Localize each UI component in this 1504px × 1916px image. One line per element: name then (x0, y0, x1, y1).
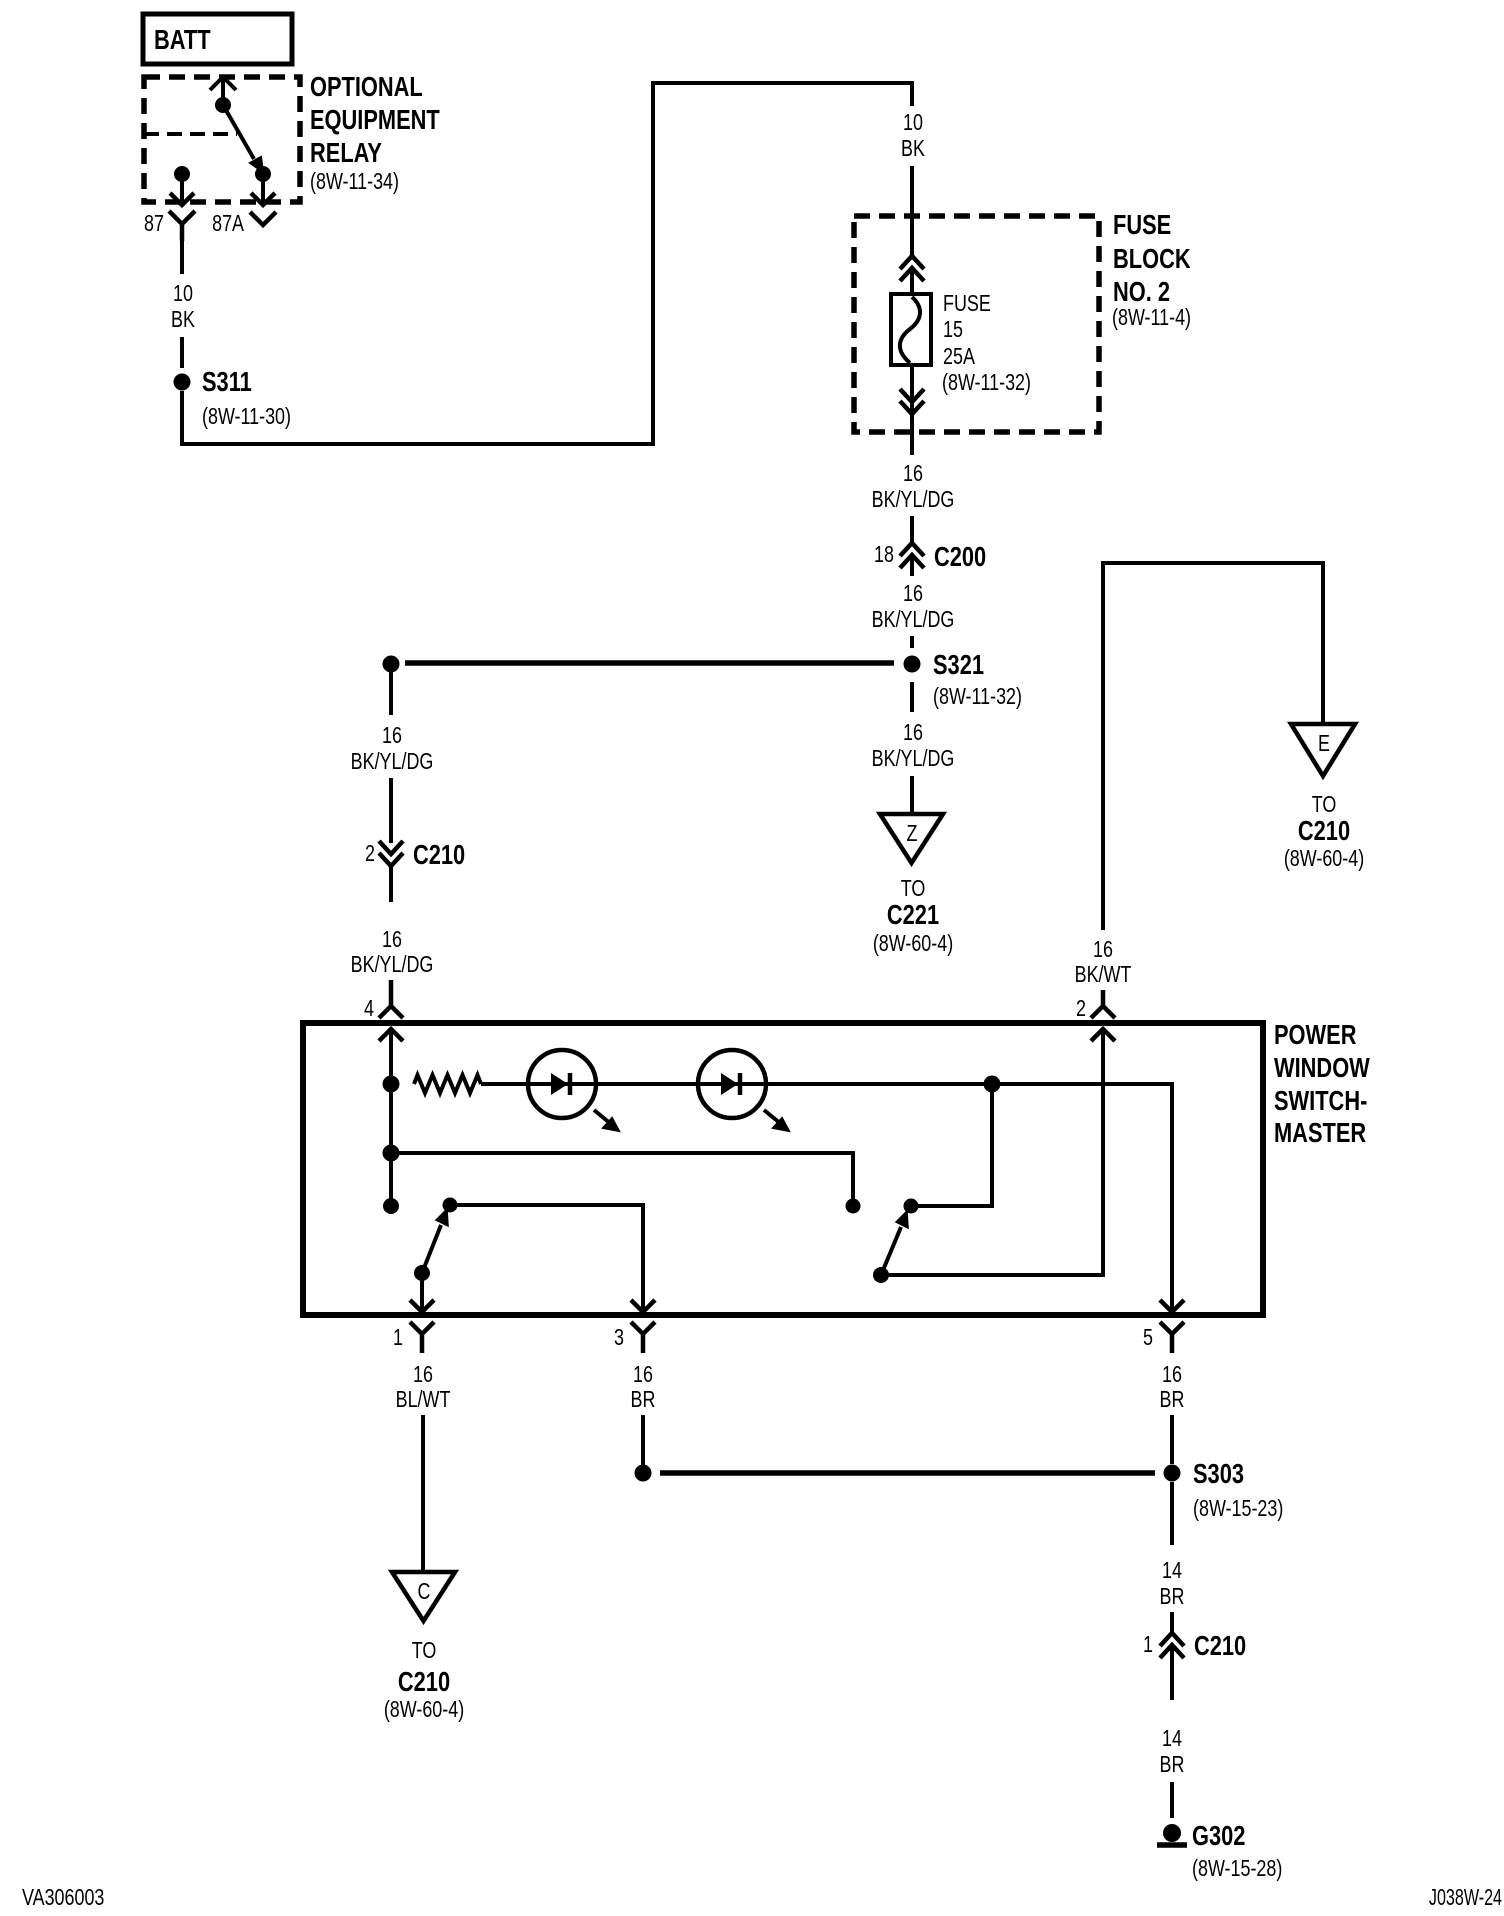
svg-text:S303: S303 (1193, 1458, 1244, 1489)
pin 87 connector Y (169, 211, 195, 241)
svg-text:C200: C200 (934, 541, 986, 572)
wire ground branch (660, 1470, 1155, 1476)
svg-text:(8W-11-30): (8W-11-30) (202, 404, 291, 430)
relay label (310, 71, 440, 194)
wire label 16 BK/YL/DG (351, 723, 434, 775)
svg-text:J038W-24: J038W-24 (1429, 1885, 1502, 1910)
wire label 16 BK/YL/DG (872, 461, 955, 513)
wire label 14 BR (1160, 1726, 1185, 1778)
wire below S321 (910, 682, 914, 712)
right switch contact dot (904, 1199, 919, 1214)
svg-text:1: 1 (1143, 1632, 1153, 1658)
svg-text:TO: TO (412, 1638, 437, 1664)
svg-text:BR: BR (1160, 1752, 1185, 1778)
svg-text:3: 3 (614, 1325, 624, 1351)
svg-text:POWER: POWER (1274, 1019, 1356, 1050)
wire (910, 268, 914, 296)
svg-text:16: 16 (413, 1362, 433, 1388)
wire to ground (1170, 1782, 1174, 1818)
relay common dot (215, 97, 231, 113)
svg-text:(8W-60-4): (8W-60-4) (1284, 846, 1364, 872)
wire label 16 BR pin5 (1160, 1362, 1185, 1413)
svg-text:C210: C210 (398, 1666, 450, 1697)
pin 3 arrow (631, 1300, 655, 1312)
svg-text:MASTER: MASTER (1274, 1117, 1366, 1148)
svg-text:16: 16 (633, 1362, 653, 1388)
pin 5 connector Y (1160, 1322, 1184, 1353)
svg-text:(8W-11-4): (8W-11-4) (1112, 305, 1191, 331)
resistor (414, 1075, 481, 1093)
wire label 16 BL/WT (396, 1362, 451, 1413)
wire left contact to pin 3 (450, 1205, 643, 1311)
wire pivot to pin 1 (420, 1273, 424, 1311)
wire (910, 516, 914, 544)
pin 1 connector Y (410, 1322, 434, 1353)
svg-text:OPTIONAL: OPTIONAL (310, 71, 423, 102)
connector C210 pin 2 (365, 839, 465, 902)
svg-text:C210: C210 (1298, 815, 1350, 846)
svg-text:BK/YL/DG: BK/YL/DG (351, 749, 434, 775)
svg-text:SWITCH-: SWITCH- (1274, 1085, 1367, 1116)
svg-text:87A: 87A (212, 211, 244, 237)
relay common pin arrow to BATT (210, 77, 236, 105)
wire below S303 (1170, 1482, 1174, 1545)
connector C200 (874, 541, 986, 576)
svg-text:BK: BK (901, 136, 925, 162)
off-page connector E (1291, 724, 1355, 776)
svg-text:BATT: BATT (154, 24, 211, 55)
switch-master label (1274, 1019, 1370, 1148)
wire (481, 1082, 528, 1086)
splice dot pin 3 branch (635, 1465, 652, 1482)
svg-text:BLOCK: BLOCK (1113, 243, 1191, 274)
fuse block label (1112, 209, 1191, 330)
svg-text:16: 16 (382, 723, 402, 749)
optional equipment relay dashed box (144, 77, 300, 202)
svg-text:BK/YL/DG: BK/YL/DG (872, 487, 955, 513)
destination label TO C210 (1284, 792, 1364, 872)
wire from S311 to fuse block feed (182, 83, 912, 444)
svg-text:BK/YL/DG: BK/YL/DG (351, 952, 434, 978)
wire out of fuse block (910, 414, 914, 455)
svg-text:(8W-11-32): (8W-11-32) (933, 684, 1022, 710)
wire pin 5 down (1170, 1415, 1174, 1464)
node dot (383, 1076, 400, 1093)
svg-text:14: 14 (1162, 1726, 1182, 1752)
wire pin 4 feed (389, 1029, 393, 1206)
wire label 16 BR pin3 (631, 1362, 656, 1413)
relay pin 87 stub and arrow (170, 174, 194, 205)
svg-text:BK: BK (171, 307, 195, 333)
svg-text:16: 16 (1093, 937, 1113, 963)
node dot (383, 1145, 400, 1162)
svg-text:16: 16 (382, 927, 402, 953)
power window switch-master box (303, 1023, 1263, 1315)
svg-text:BR: BR (1160, 1584, 1185, 1610)
wire (389, 778, 393, 843)
svg-text:5: 5 (1143, 1325, 1153, 1351)
wire pivot to pin 2 (881, 1029, 1103, 1275)
left switch contact dot (443, 1198, 458, 1213)
node dot end of feed (383, 1198, 399, 1214)
junction dot on LED rail (984, 1076, 1001, 1093)
wire (910, 636, 914, 648)
svg-text:2: 2 (1076, 996, 1086, 1022)
svg-text:10: 10 (903, 110, 923, 136)
wire (1170, 1612, 1174, 1634)
wire label 10 BK (171, 281, 195, 333)
wire label 16 BK/YL/DG (872, 581, 955, 633)
svg-text:(8W-11-32): (8W-11-32) (942, 370, 1031, 396)
svg-text:E: E (1318, 731, 1330, 757)
pin 5 arrow (1160, 1300, 1184, 1312)
svg-text:C: C (418, 1579, 431, 1605)
svg-text:C221: C221 (887, 899, 939, 930)
pin 4 male arrow (379, 1029, 403, 1041)
svg-text:BR: BR (631, 1387, 656, 1413)
svg-text:C210: C210 (1194, 1630, 1246, 1661)
svg-text:25A: 25A (943, 344, 975, 370)
svg-text:16: 16 (903, 461, 923, 487)
destination label TO C210 (384, 1638, 464, 1723)
svg-text:RELAY: RELAY (310, 137, 382, 168)
svg-text:Z: Z (907, 821, 918, 847)
svg-text:4: 4 (364, 996, 374, 1022)
wire LED rail to pin 5 (766, 1084, 1172, 1311)
svg-text:WINDOW: WINDOW (1274, 1052, 1370, 1083)
svg-text:14: 14 (1162, 1558, 1182, 1584)
BATT feed box (143, 14, 292, 64)
svg-text:(8W-11-34): (8W-11-34) (310, 169, 399, 195)
svg-text:C210: C210 (413, 839, 465, 870)
svg-text:TO: TO (901, 876, 926, 902)
wire (910, 776, 914, 814)
left switch pivot dot (414, 1265, 430, 1281)
fuse 15 25A (891, 291, 1031, 396)
pin 3 connector Y (631, 1322, 655, 1353)
wire (910, 363, 914, 413)
svg-text:10: 10 (173, 281, 193, 307)
wire label 16 BK/WT (1075, 937, 1132, 988)
svg-text:FUSE: FUSE (1113, 209, 1171, 240)
svg-text:BK/YL/DG: BK/YL/DG (872, 607, 955, 633)
svg-text:FUSE: FUSE (943, 291, 991, 317)
LED 2 (698, 1050, 789, 1131)
right switch arm (881, 1211, 908, 1275)
svg-text:G302: G302 (1192, 1820, 1245, 1851)
svg-text:(8W-60-4): (8W-60-4) (873, 931, 953, 957)
contact dot lower branch (846, 1199, 861, 1214)
wire pin 3 down (641, 1415, 645, 1465)
pin 1 arrow (410, 1300, 434, 1312)
svg-text:16: 16 (1162, 1362, 1182, 1388)
connector C210 pin 1 (1143, 1630, 1246, 1700)
svg-text:15: 15 (943, 317, 963, 343)
wire (180, 337, 184, 368)
relay internal dashed divider (144, 132, 237, 136)
svg-text:(8W-15-23): (8W-15-23) (1193, 1496, 1283, 1522)
svg-text:87: 87 (144, 211, 164, 237)
svg-text:BL/WT: BL/WT (396, 1387, 451, 1413)
left switch arm (422, 1209, 448, 1273)
wire top right run to E connector (1103, 563, 1323, 930)
svg-text:BK/WT: BK/WT (1075, 962, 1132, 988)
pin 87A connector Y (250, 212, 276, 225)
connector chevrons at fuse block exit (900, 389, 924, 414)
wire label 16 BK/YL/DG (872, 720, 955, 772)
svg-text:(8W-15-28): (8W-15-28) (1192, 1856, 1282, 1882)
svg-text:S321: S321 (933, 649, 984, 680)
svg-text:(8W-60-4): (8W-60-4) (384, 1697, 464, 1723)
wire below branch dot (389, 672, 393, 715)
relay contact dot 87A (255, 166, 271, 182)
svg-text:16: 16 (903, 581, 923, 607)
splice S311 (174, 366, 291, 429)
wire 87 down (180, 241, 184, 274)
wire S321 branch to C210 column (405, 660, 894, 666)
LED 1 (528, 1050, 619, 1131)
svg-text:EQUIPMENT: EQUIPMENT (310, 104, 440, 135)
wire pin 1 down (421, 1415, 425, 1572)
svg-text:BK/YL/DG: BK/YL/DG (872, 746, 955, 772)
ground G302 (1157, 1820, 1282, 1881)
destination label TO C221 (873, 876, 953, 957)
wire lower branch (391, 1153, 853, 1206)
wire right contact to LED rail (911, 1084, 992, 1206)
pin 2 male arrow (1091, 1029, 1115, 1041)
splice S321 (904, 649, 1022, 709)
wire label 14 BR (1160, 1558, 1185, 1610)
svg-text:NO. 2: NO. 2 (1113, 276, 1170, 307)
svg-text:BR: BR (1160, 1387, 1185, 1413)
wire into fuse block (910, 166, 914, 256)
svg-text:18: 18 (874, 542, 894, 568)
connector chevrons at fuse block entry (900, 256, 924, 281)
off-page connector C (392, 1572, 455, 1621)
svg-text:16: 16 (903, 720, 923, 746)
relay switch arm (223, 105, 263, 172)
fuse block no. 2 dashed box (854, 216, 1099, 432)
pin 4 connector female (379, 980, 403, 1018)
splice S303 (1164, 1458, 1284, 1521)
wire label 10 BK (901, 110, 925, 162)
wire label 16 BK/YL/DG (351, 927, 434, 978)
svg-text:TO: TO (1312, 792, 1337, 818)
svg-text:2: 2 (365, 841, 375, 867)
svg-text:S311: S311 (202, 366, 252, 397)
pin 2 connector female (1091, 990, 1115, 1018)
relay contact dot 87 (174, 166, 190, 182)
svg-text:1: 1 (393, 1325, 403, 1351)
svg-text:VA306003: VA306003 (22, 1885, 104, 1911)
right switch pivot dot (873, 1267, 889, 1283)
relay pin 87A stub and arrow (251, 174, 275, 205)
off-page connector Z (880, 814, 943, 863)
node dot left of S321 branch (383, 656, 400, 673)
wire (596, 1082, 698, 1086)
